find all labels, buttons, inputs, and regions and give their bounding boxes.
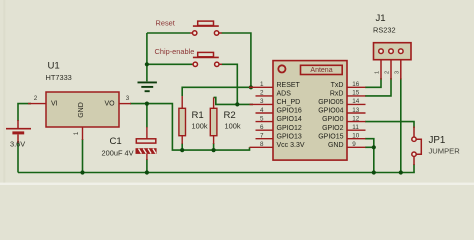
junction node J1 pin3 rail: [399, 170, 403, 174]
svg-text:8: 8: [260, 141, 264, 148]
wire R2 bottom: [213, 143, 215, 150]
pin names left: [277, 82, 305, 149]
resistor R2 100k: [210, 97, 241, 144]
svg-text:100k: 100k: [192, 121, 208, 130]
wire left vertical reset/chip-enable to ground: [146, 33, 148, 81]
junction node C1 rail: [145, 170, 149, 174]
svg-text:12: 12: [352, 115, 360, 122]
svg-text:RxD: RxD: [330, 90, 344, 97]
svg-text:JUMPER: JUMPER: [429, 146, 461, 155]
svg-text:10: 10: [352, 133, 360, 140]
svg-text:GPIO04: GPIO04: [318, 108, 343, 115]
svg-text:14: 14: [352, 98, 360, 105]
svg-text:VI: VI: [51, 100, 58, 107]
svg-text:13: 13: [352, 107, 360, 114]
wire battery bottom to ground rail: [17, 141, 19, 173]
svg-text:U1: U1: [48, 61, 60, 72]
pin numbers right: [352, 81, 360, 148]
junction node R2 bottom: [212, 148, 216, 152]
wire GPIO0 pin12 to JP1 top: [365, 122, 414, 128]
resistor R1 100k: [179, 96, 208, 144]
svg-text:16: 16: [352, 81, 360, 88]
wire R1 bottom: [181, 143, 183, 150]
wire C1 bottom to rail: [146, 159, 148, 173]
ESP module U2: [273, 61, 347, 161]
svg-text:ADS: ADS: [277, 90, 292, 97]
svg-text:1: 1: [375, 71, 381, 74]
push button Reset: [156, 19, 222, 36]
svg-text:100k: 100k: [225, 121, 241, 130]
wire U1 GND pin to rail: [82, 139, 84, 173]
svg-text:Chip-enable: Chip-enable: [155, 47, 195, 56]
pin names right: [318, 82, 343, 149]
pin stubs left pins 1-8: [249, 87, 273, 147]
svg-text:11: 11: [352, 124, 359, 131]
svg-text:GPIO2: GPIO2: [322, 125, 344, 132]
svg-text:Vcc 3.3V: Vcc 3.3V: [277, 142, 305, 149]
ground: [138, 82, 157, 91]
svg-text:3.6V: 3.6V: [10, 140, 25, 149]
svg-text:GPIO15: GPIO15: [318, 133, 343, 140]
svg-text:J1: J1: [376, 13, 386, 24]
junction node U1 gnd rail: [80, 170, 84, 174]
wire chip-enable row left: [147, 63, 192, 65]
svg-text:2: 2: [385, 71, 391, 74]
svg-text:R1: R1: [192, 110, 204, 121]
wire GND pin9: [365, 146, 374, 148]
junction node VO-C1: [145, 102, 149, 106]
svg-text:GPIO16: GPIO16: [277, 108, 302, 115]
svg-text:TxD: TxD: [331, 82, 344, 89]
junction node GND pin9: [372, 145, 376, 149]
wire JP1 bottom to rail: [413, 164, 415, 173]
wire ground rail: [18, 172, 415, 174]
svg-text:1: 1: [260, 81, 264, 88]
wire J1 pin3 to ground rail: [400, 78, 402, 173]
antenna circle: [278, 65, 285, 72]
wire RxD pin15 to J1 pin2: [365, 78, 391, 96]
wire VO 3.3V rail to R1 R2 bottoms and pin8: [130, 104, 250, 151]
wire TxD pin16 to J1 pin1: [365, 78, 381, 87]
svg-text:3: 3: [126, 95, 130, 102]
svg-text:RS232: RS232: [373, 25, 396, 34]
Antena box: [301, 65, 343, 74]
svg-text:RESET: RESET: [277, 82, 301, 89]
svg-text:Reset: Reset: [156, 19, 175, 28]
connector J1 RS232: [373, 13, 411, 79]
svg-text:R2: R2: [224, 110, 236, 121]
regulator U1 HT7333: [28, 61, 131, 140]
wire VO node to C1 top: [146, 104, 148, 128]
svg-text:HT7333: HT7333: [46, 73, 72, 82]
junction node R1 bottom: [180, 148, 184, 152]
wire R2 top jog to pin3 row: [214, 97, 253, 104]
junction node GND rail: [372, 170, 376, 174]
jumper JP1: [412, 127, 460, 166]
wire battery top to U1 VI: [18, 104, 31, 121]
wire R1 top to pin1 row: [182, 87, 253, 96]
svg-text:5: 5: [260, 115, 264, 122]
svg-text:6: 6: [260, 124, 264, 131]
wire reset row left: [147, 32, 190, 34]
svg-text:2: 2: [260, 90, 264, 97]
svg-text:CH_PD: CH_PD: [277, 99, 301, 106]
svg-text:3: 3: [395, 71, 401, 74]
wire chip-enable right to pin3: [222, 64, 238, 104]
wire GPIO15 pin10 to GND net: [365, 139, 374, 173]
svg-text:15: 15: [352, 90, 360, 97]
svg-text:JP1: JP1: [429, 135, 446, 146]
svg-text:GPIO0: GPIO0: [322, 116, 344, 123]
svg-text:3: 3: [260, 98, 264, 105]
svg-text:VO: VO: [105, 100, 116, 107]
svg-text:200uF 4V: 200uF 4V: [102, 149, 134, 158]
svg-text:GND: GND: [78, 102, 85, 118]
svg-text:2: 2: [34, 95, 38, 102]
pin numbers left: [260, 81, 264, 148]
junction node CH_PD pin3: [235, 102, 239, 106]
svg-text:1: 1: [73, 131, 80, 135]
svg-text:9: 9: [352, 141, 356, 148]
push button Chip-enable: [155, 47, 223, 67]
svg-text:C1: C1: [110, 136, 122, 147]
capacitor C1 200uF 4V: [102, 127, 157, 160]
wire reset button right to pin1: [222, 33, 251, 87]
svg-text:GPIO12: GPIO12: [277, 125, 302, 132]
svg-text:4: 4: [260, 107, 264, 114]
svg-text:7: 7: [260, 133, 264, 140]
battery BT 3.6V: [6, 120, 31, 149]
svg-text:GPIO14: GPIO14: [277, 116, 302, 123]
junction node RESET pin1: [249, 85, 253, 89]
svg-text:GND: GND: [328, 142, 344, 149]
svg-text:GPIO13: GPIO13: [277, 133, 302, 140]
junction node chip-enable tap: [145, 62, 149, 66]
svg-text:GPIO05: GPIO05: [318, 99, 343, 106]
pin stubs right pins 16-9: [347, 87, 366, 147]
svg-text:Antena: Antena: [310, 67, 332, 74]
